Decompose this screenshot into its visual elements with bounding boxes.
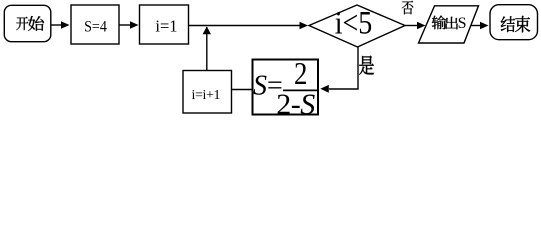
- arrowhead into i=1: [130, 21, 139, 29]
- decision diamond i<5: [309, 5, 405, 47]
- wire start to S=4: [51, 24, 62, 26]
- process box i=1: [140, 5, 189, 44]
- label 是: [359, 56, 374, 75]
- arrowhead into S=4: [61, 21, 70, 29]
- text 输出S: [432, 15, 458, 29]
- wire S=4 to i=1: [119, 24, 131, 26]
- wire output to end: [471, 25, 481, 27]
- arrowhead at junction pointing up: [203, 27, 211, 35]
- arrowhead into formula box: [320, 85, 329, 93]
- svg-text:2-S: 2-S: [276, 88, 315, 120]
- svg-text:i<5: i<5: [335, 5, 373, 42]
- wire increment box up to junction: [206, 27, 208, 71]
- wire decision down, yes branch: [329, 47, 358, 89]
- svg-text:S: S: [458, 15, 467, 32]
- svg-text:S=4: S=4: [84, 19, 107, 36]
- formula S = 2 over 2-S: [253, 57, 318, 121]
- arrowhead into decision: [300, 22, 309, 30]
- arrowhead into end: [480, 22, 489, 30]
- arrowhead into output: [417, 22, 426, 30]
- svg-text:S: S: [253, 70, 267, 101]
- end terminator box: [490, 5, 538, 40]
- increment box i=i+1: [183, 71, 232, 114]
- output parallelogram: [419, 6, 479, 43]
- svg-text:i=i+1: i=i+1: [192, 88, 221, 103]
- label 否: [402, 1, 413, 15]
- start terminator box: [4, 5, 51, 41]
- svg-text:i=1: i=1: [155, 16, 177, 35]
- loop body box S=2/(2-S): [253, 60, 319, 115]
- wire i=1 to decision: [189, 25, 302, 27]
- process box S=4: [71, 5, 119, 44]
- svg-text:2: 2: [294, 57, 307, 92]
- wire decision to output, no branch: [405, 25, 418, 27]
- text 开始: [16, 16, 44, 31]
- text 结束: [501, 16, 530, 33]
- wire formula box to increment box: [232, 89, 253, 91]
